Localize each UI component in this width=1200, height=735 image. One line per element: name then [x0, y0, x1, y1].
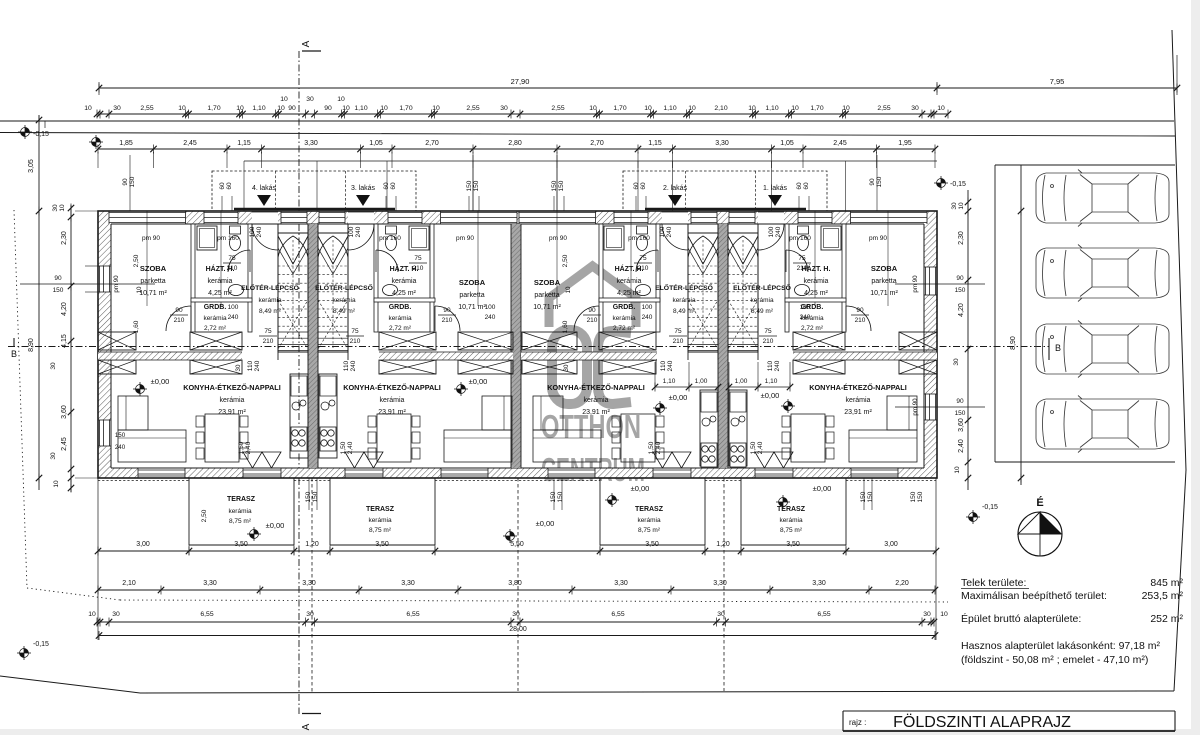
svg-text:30: 30: [52, 204, 59, 212]
svg-text:10: 10: [954, 466, 961, 474]
svg-text:23,91 m²: 23,91 m²: [844, 409, 872, 416]
svg-text:±0,00: ±0,00: [536, 519, 555, 528]
svg-text:kerámia: kerámia: [750, 297, 774, 304]
svg-text:210: 210: [587, 317, 598, 324]
svg-text:parketta: parketta: [459, 292, 484, 299]
svg-text:1,70: 1,70: [399, 105, 412, 112]
svg-text:10: 10: [688, 105, 696, 112]
svg-text:10: 10: [277, 105, 285, 112]
svg-text:150: 150: [115, 432, 126, 439]
svg-text:1,70: 1,70: [613, 105, 626, 112]
svg-text:pm 90: pm 90: [549, 235, 567, 242]
svg-text:6,55: 6,55: [817, 611, 830, 618]
svg-text:8,49 m²: 8,49 m²: [333, 308, 356, 315]
svg-text:2. lakás: 2. lakás: [663, 185, 688, 192]
svg-text:60: 60: [390, 182, 397, 190]
svg-text:150: 150: [955, 410, 966, 417]
svg-text:B: B: [1055, 343, 1061, 353]
svg-text:1,20: 1,20: [716, 541, 730, 548]
svg-text:150: 150: [557, 491, 564, 502]
svg-text:1,10: 1,10: [663, 105, 676, 112]
svg-text:23,91 m²: 23,91 m²: [582, 409, 610, 416]
svg-text:60: 60: [803, 182, 810, 190]
svg-text:10: 10: [940, 611, 948, 618]
svg-text:pm 90: pm 90: [142, 235, 160, 242]
svg-text:90: 90: [956, 275, 964, 282]
svg-text:6,55: 6,55: [406, 611, 419, 618]
svg-text:SZOBA: SZOBA: [459, 278, 486, 287]
svg-text:pm 160: pm 160: [628, 235, 650, 242]
svg-text:75: 75: [639, 255, 647, 262]
svg-text:kerámia: kerámia: [220, 397, 245, 404]
svg-text:1,05: 1,05: [780, 140, 794, 147]
svg-text:100: 100: [485, 304, 496, 311]
svg-text:±0,00: ±0,00: [761, 391, 780, 400]
svg-text:kerámia: kerámia: [779, 517, 803, 524]
svg-text:TERASZ: TERASZ: [635, 506, 664, 513]
svg-text:75: 75: [351, 328, 359, 335]
svg-text:Épület bruttó alapterülete:: Épület bruttó alapterülete:: [961, 612, 1081, 625]
svg-text:10: 10: [958, 202, 965, 210]
svg-text:parketta: parketta: [871, 278, 896, 285]
svg-text:240: 240: [666, 226, 673, 237]
svg-text:210: 210: [174, 317, 185, 324]
svg-text:150: 150: [917, 491, 924, 502]
svg-text:1,60: 1,60: [133, 320, 140, 333]
svg-text:3,00: 3,00: [136, 541, 150, 548]
svg-text:240: 240: [800, 314, 811, 321]
svg-text:240: 240: [485, 314, 496, 321]
svg-text:10: 10: [791, 105, 799, 112]
svg-text:150: 150: [551, 180, 558, 191]
svg-text:150: 150: [305, 491, 312, 502]
svg-text:pm 90: pm 90: [456, 235, 474, 242]
svg-text:4,20: 4,20: [958, 303, 965, 317]
svg-text:10: 10: [88, 611, 96, 618]
svg-text:1,95: 1,95: [898, 140, 912, 147]
svg-text:3,00: 3,00: [884, 541, 898, 548]
svg-text:3,60: 3,60: [61, 405, 68, 419]
svg-text:150: 150: [312, 491, 319, 502]
svg-text:210: 210: [263, 338, 274, 345]
svg-text:pm 160: pm 160: [379, 235, 401, 242]
svg-text:1,05: 1,05: [369, 140, 383, 147]
svg-text:3,50: 3,50: [645, 541, 659, 548]
svg-text:2,45: 2,45: [61, 437, 68, 451]
svg-text:KONYHA-ÉTKEZŐ-NAPPALI: KONYHA-ÉTKEZŐ-NAPPALI: [183, 383, 281, 392]
svg-text:3,30: 3,30: [401, 580, 415, 587]
svg-text:2,55: 2,55: [877, 105, 890, 112]
svg-text:150: 150: [558, 180, 565, 191]
svg-text:6,55: 6,55: [611, 611, 624, 618]
svg-text:90: 90: [869, 178, 876, 186]
svg-text:kerámia: kerámia: [846, 397, 871, 404]
svg-text:90: 90: [122, 178, 129, 186]
svg-text:240: 240: [774, 360, 781, 371]
svg-text:60: 60: [383, 182, 390, 190]
svg-text:100: 100: [768, 226, 775, 237]
svg-text:10: 10: [342, 105, 350, 112]
svg-text:10,71 m²: 10,71 m²: [458, 304, 486, 311]
svg-text:240: 240: [355, 226, 362, 237]
svg-text:100: 100: [642, 304, 653, 311]
svg-text:4,25 m²: 4,25 m²: [804, 290, 828, 297]
svg-text:2,72 m²: 2,72 m²: [613, 325, 636, 332]
svg-text:30: 30: [500, 105, 508, 112]
svg-text:3,30: 3,30: [614, 580, 628, 587]
svg-text:240: 240: [115, 444, 126, 451]
svg-text:8,75 m²: 8,75 m²: [638, 527, 661, 534]
svg-text:8,49 m²: 8,49 m²: [259, 308, 282, 315]
svg-text:3. lakás: 3. lakás: [351, 185, 376, 192]
svg-text:3,30: 3,30: [302, 580, 316, 587]
svg-text:2,40: 2,40: [347, 441, 354, 454]
svg-text:kerámia: kerámia: [388, 315, 412, 322]
svg-text:3,30: 3,30: [812, 580, 826, 587]
svg-text:10: 10: [748, 105, 756, 112]
svg-text:ELŐTÉR-LÉPCSŐ: ELŐTÉR-LÉPCSŐ: [241, 283, 299, 292]
svg-text:1,10: 1,10: [663, 378, 676, 385]
svg-text:90: 90: [288, 105, 296, 112]
svg-text:150: 150: [129, 176, 136, 187]
svg-text:5,50: 5,50: [510, 541, 524, 548]
svg-text:8,49 m²: 8,49 m²: [751, 308, 774, 315]
svg-text:1,00: 1,00: [695, 378, 708, 385]
svg-text:±0,00: ±0,00: [151, 377, 170, 386]
svg-text:4,25 m²: 4,25 m²: [617, 290, 641, 297]
svg-text:±0,00: ±0,00: [669, 393, 688, 402]
svg-text:KONYHA-ÉTKEZŐ-NAPPALI: KONYHA-ÉTKEZŐ-NAPPALI: [547, 383, 645, 392]
svg-text:3,50: 3,50: [234, 541, 248, 548]
svg-text:10,71 m²: 10,71 m²: [870, 290, 898, 297]
svg-text:-0,15: -0,15: [33, 131, 49, 138]
svg-text:210: 210: [350, 338, 361, 345]
svg-text:2,45: 2,45: [833, 140, 847, 147]
svg-text:3,80: 3,80: [508, 580, 522, 587]
svg-text:150: 150: [473, 180, 480, 191]
svg-text:1,10: 1,10: [252, 105, 265, 112]
svg-text:8,49 m²: 8,49 m²: [673, 308, 696, 315]
svg-text:110: 110: [767, 360, 774, 371]
svg-text:2,72 m²: 2,72 m²: [389, 325, 412, 332]
svg-text:10,71 m²: 10,71 m²: [533, 304, 561, 311]
svg-text:SZOBA: SZOBA: [534, 278, 561, 287]
svg-text:6,55: 6,55: [200, 611, 213, 618]
svg-text:30: 30: [911, 105, 919, 112]
svg-text:210: 210: [638, 265, 649, 272]
svg-text:30: 30: [951, 202, 958, 210]
svg-text:10: 10: [59, 204, 66, 212]
svg-text:2,30: 2,30: [61, 231, 68, 245]
svg-text:kerámia: kerámia: [804, 278, 829, 285]
svg-text:75: 75: [674, 328, 682, 335]
svg-text:10: 10: [136, 286, 143, 293]
svg-text:30: 30: [953, 358, 960, 366]
svg-text:8,75 m²: 8,75 m²: [780, 527, 803, 534]
svg-text:ELŐTÉR-LÉPCSŐ: ELŐTÉR-LÉPCSŐ: [315, 283, 373, 292]
svg-text:2,30: 2,30: [958, 231, 965, 245]
svg-text:1,70: 1,70: [207, 105, 220, 112]
svg-text:150: 150: [876, 176, 883, 187]
svg-text:30: 30: [50, 362, 57, 370]
svg-text:240: 240: [256, 226, 263, 237]
svg-text:60: 60: [633, 182, 640, 190]
svg-text:2,55: 2,55: [466, 105, 479, 112]
svg-text:150: 150: [910, 491, 917, 502]
svg-text:2,20: 2,20: [895, 580, 909, 587]
svg-text:2,55: 2,55: [551, 105, 564, 112]
svg-text:75: 75: [264, 328, 272, 335]
svg-text:-0,15: -0,15: [950, 181, 966, 188]
svg-text:kerámia: kerámia: [203, 315, 227, 322]
svg-text:210: 210: [442, 317, 453, 324]
svg-text:8,90: 8,90: [28, 338, 35, 352]
svg-text:2,50: 2,50: [201, 509, 208, 522]
svg-text:B: B: [11, 349, 17, 359]
svg-text:4. lakás: 4. lakás: [252, 185, 277, 192]
svg-text:3,30: 3,30: [304, 140, 318, 147]
svg-text:GRDB.: GRDB.: [204, 304, 227, 311]
svg-text:10: 10: [432, 105, 440, 112]
svg-text:150: 150: [466, 180, 473, 191]
svg-text:Maximálisan beépíthető terület: Maximálisan beépíthető terület:: [961, 590, 1107, 602]
svg-text:1,10: 1,10: [354, 105, 367, 112]
svg-text:kerámia: kerámia: [228, 508, 252, 515]
svg-text:GRDB.: GRDB.: [613, 304, 636, 311]
svg-text:90: 90: [54, 275, 62, 282]
svg-text:KONYHA-ÉTKEZŐ-NAPPALI: KONYHA-ÉTKEZŐ-NAPPALI: [809, 383, 907, 392]
svg-text:1,60: 1,60: [562, 320, 569, 333]
svg-text:10: 10: [236, 105, 244, 112]
svg-text:30: 30: [512, 611, 520, 618]
svg-text:2,10: 2,10: [122, 580, 136, 587]
svg-text:252 m²: 252 m²: [1150, 613, 1183, 625]
svg-text:FÖLDSZINTI ALAPRAJZ: FÖLDSZINTI ALAPRAJZ: [893, 713, 1071, 731]
svg-text:75: 75: [228, 255, 236, 262]
svg-text:30: 30: [50, 452, 57, 460]
svg-text:parketta: parketta: [534, 292, 559, 299]
svg-text:1,50: 1,50: [750, 441, 757, 454]
svg-text:90: 90: [588, 307, 596, 314]
svg-text:10: 10: [53, 480, 60, 488]
svg-text:4,15: 4,15: [61, 334, 68, 348]
svg-text:TERASZ: TERASZ: [777, 506, 806, 513]
svg-text:150: 150: [955, 287, 966, 294]
svg-text:kerámia: kerámia: [368, 517, 392, 524]
svg-text:60: 60: [226, 182, 233, 190]
svg-text:2,50: 2,50: [562, 254, 569, 267]
svg-text:1,85: 1,85: [119, 140, 133, 147]
svg-text:1,50: 1,50: [648, 441, 655, 454]
svg-text:kerámia: kerámia: [617, 278, 642, 285]
svg-text:100: 100: [659, 226, 666, 237]
svg-text:-0,15: -0,15: [982, 504, 998, 511]
svg-text:kerámia: kerámia: [258, 297, 282, 304]
svg-text:10: 10: [842, 105, 850, 112]
svg-text:1,70: 1,70: [810, 105, 823, 112]
svg-text:É: É: [1036, 496, 1043, 509]
svg-text:240: 240: [254, 360, 261, 371]
svg-text:90: 90: [175, 307, 183, 314]
svg-text:90: 90: [324, 105, 332, 112]
svg-text:TERASZ: TERASZ: [366, 506, 395, 513]
svg-text:60: 60: [796, 182, 803, 190]
svg-text:30: 30: [306, 96, 314, 103]
svg-text:3,60: 3,60: [958, 418, 965, 432]
svg-text:210: 210: [673, 338, 684, 345]
svg-text:KONYHA-ÉTKEZŐ-NAPPALI: KONYHA-ÉTKEZŐ-NAPPALI: [343, 383, 441, 392]
svg-text:60: 60: [219, 182, 226, 190]
svg-text:10: 10: [380, 105, 388, 112]
svg-text:23,91 m²: 23,91 m²: [218, 409, 246, 416]
svg-text:240: 240: [775, 226, 782, 237]
svg-text:10: 10: [84, 105, 92, 112]
svg-text:2,80: 2,80: [508, 140, 522, 147]
svg-text:30: 30: [113, 105, 121, 112]
svg-text:ELŐTÉR-LÉPCSŐ: ELŐTÉR-LÉPCSŐ: [655, 283, 713, 292]
svg-text:A: A: [301, 40, 312, 47]
svg-text:240: 240: [642, 314, 653, 321]
svg-text:2,50: 2,50: [133, 254, 140, 267]
svg-text:30: 30: [306, 611, 314, 618]
svg-text:110: 110: [660, 360, 667, 371]
svg-text:75: 75: [798, 255, 806, 262]
svg-text:10: 10: [565, 286, 572, 293]
svg-text:2,55: 2,55: [140, 105, 153, 112]
svg-text:10: 10: [337, 96, 345, 103]
svg-text:kerámia: kerámia: [612, 315, 636, 322]
svg-text:27,90: 27,90: [511, 77, 530, 86]
svg-text:30: 30: [235, 364, 242, 371]
svg-text:150: 150: [53, 287, 64, 294]
svg-text:240: 240: [350, 360, 357, 371]
svg-text:75: 75: [414, 255, 422, 262]
svg-text:90: 90: [856, 307, 864, 314]
svg-text:30: 30: [563, 364, 570, 371]
svg-text:kerámia: kerámia: [637, 517, 661, 524]
svg-text:rajz :: rajz :: [849, 718, 866, 727]
svg-text:Hasznos alapterület lakásonkén: Hasznos alapterület lakásonként: 97,18 m…: [961, 640, 1161, 652]
svg-text:kerámia: kerámia: [672, 297, 696, 304]
svg-text:kerámia: kerámia: [392, 278, 417, 285]
svg-text:10: 10: [589, 105, 597, 112]
svg-text:3,30: 3,30: [715, 140, 729, 147]
svg-text:1,15: 1,15: [648, 140, 662, 147]
svg-text:150: 150: [860, 491, 867, 502]
svg-text:4,25 m²: 4,25 m²: [392, 290, 416, 297]
svg-text:30: 30: [112, 611, 120, 618]
svg-text:110: 110: [343, 360, 350, 371]
svg-text:ELŐTÉR-LÉPCSŐ: ELŐTÉR-LÉPCSŐ: [733, 283, 791, 292]
svg-text:210: 210: [797, 265, 808, 272]
svg-text:kerámia: kerámia: [380, 397, 405, 404]
svg-text:110: 110: [247, 360, 254, 371]
svg-text:±0,00: ±0,00: [469, 377, 488, 386]
svg-text:23,91 m²: 23,91 m²: [378, 409, 406, 416]
svg-text:8,75 m²: 8,75 m²: [369, 527, 392, 534]
svg-text:2,72 m²: 2,72 m²: [801, 325, 824, 332]
svg-text:4,20: 4,20: [61, 302, 68, 316]
svg-text:10: 10: [937, 105, 945, 112]
svg-text:1,00: 1,00: [735, 378, 748, 385]
svg-text:±0,00: ±0,00: [266, 521, 285, 530]
svg-text:-0,15: -0,15: [33, 641, 49, 648]
svg-text:1,50: 1,50: [340, 441, 347, 454]
svg-text:100: 100: [228, 304, 239, 311]
svg-text:TERASZ: TERASZ: [227, 496, 256, 503]
svg-text:60: 60: [640, 182, 647, 190]
svg-text:pm 160: pm 160: [789, 235, 811, 242]
svg-text:2,70: 2,70: [425, 140, 439, 147]
svg-text:±0,00: ±0,00: [631, 484, 650, 493]
svg-text:1,10: 1,10: [765, 105, 778, 112]
svg-text:1,10: 1,10: [765, 378, 778, 385]
svg-text:A: A: [301, 723, 312, 730]
svg-text:2,40: 2,40: [958, 439, 965, 453]
svg-text:210: 210: [855, 317, 866, 324]
svg-text:kerámia: kerámia: [332, 297, 356, 304]
svg-text:3,30: 3,30: [203, 580, 217, 587]
svg-text:SZOBA: SZOBA: [140, 264, 167, 273]
svg-text:100: 100: [348, 226, 355, 237]
svg-text:1,15: 1,15: [237, 140, 251, 147]
svg-text:10: 10: [644, 105, 652, 112]
svg-text:30: 30: [923, 611, 931, 618]
svg-text:7,95: 7,95: [1050, 77, 1065, 86]
svg-text:2,72 m²: 2,72 m²: [204, 325, 227, 332]
svg-text:90: 90: [443, 307, 451, 314]
svg-text:kerámia: kerámia: [208, 278, 233, 285]
svg-text:210: 210: [413, 265, 424, 272]
svg-text:SZOBA: SZOBA: [871, 264, 898, 273]
svg-text:210: 210: [763, 338, 774, 345]
svg-text:pm 160: pm 160: [217, 235, 239, 242]
svg-text:75: 75: [764, 328, 772, 335]
svg-text:8,90: 8,90: [1010, 336, 1017, 350]
svg-text:100: 100: [800, 304, 811, 311]
svg-text:3,50: 3,50: [786, 541, 800, 548]
svg-text:2,10: 2,10: [714, 105, 727, 112]
svg-text:100: 100: [249, 226, 256, 237]
svg-text:10: 10: [280, 96, 288, 103]
svg-text:3,30: 3,30: [713, 580, 727, 587]
svg-text:10,71 m²: 10,71 m²: [139, 290, 167, 297]
svg-text:240: 240: [667, 360, 674, 371]
svg-text:3,50: 3,50: [375, 541, 389, 548]
svg-text:210: 210: [227, 265, 238, 272]
svg-text:10: 10: [178, 105, 186, 112]
svg-text:GRDB.: GRDB.: [389, 304, 412, 311]
svg-text:2,45: 2,45: [183, 140, 197, 147]
svg-text:Telek területe:: Telek területe:: [961, 577, 1026, 589]
svg-text:pm 90: pm 90: [869, 235, 887, 242]
svg-text:(földszint - 50,08 m² ; emelet: (földszint - 50,08 m² ; emelet - 47,10 m…: [961, 654, 1148, 666]
svg-text:2,70: 2,70: [590, 140, 604, 147]
svg-text:240: 240: [228, 314, 239, 321]
svg-text:90: 90: [956, 398, 964, 405]
svg-text:4,25 m²: 4,25 m²: [208, 290, 232, 297]
svg-text:1. lakás: 1. lakás: [763, 185, 788, 192]
svg-text:2,40: 2,40: [757, 441, 764, 454]
svg-text:253,5 m²: 253,5 m²: [1142, 590, 1184, 602]
svg-text:845 m²: 845 m²: [1150, 577, 1183, 589]
svg-text:±0,00: ±0,00: [813, 484, 832, 493]
svg-text:150: 150: [550, 491, 557, 502]
svg-text:150: 150: [867, 491, 874, 502]
svg-text:3,05: 3,05: [28, 159, 35, 173]
svg-text:8,75 m²: 8,75 m²: [229, 518, 252, 525]
svg-text:kerámia: kerámia: [584, 397, 609, 404]
